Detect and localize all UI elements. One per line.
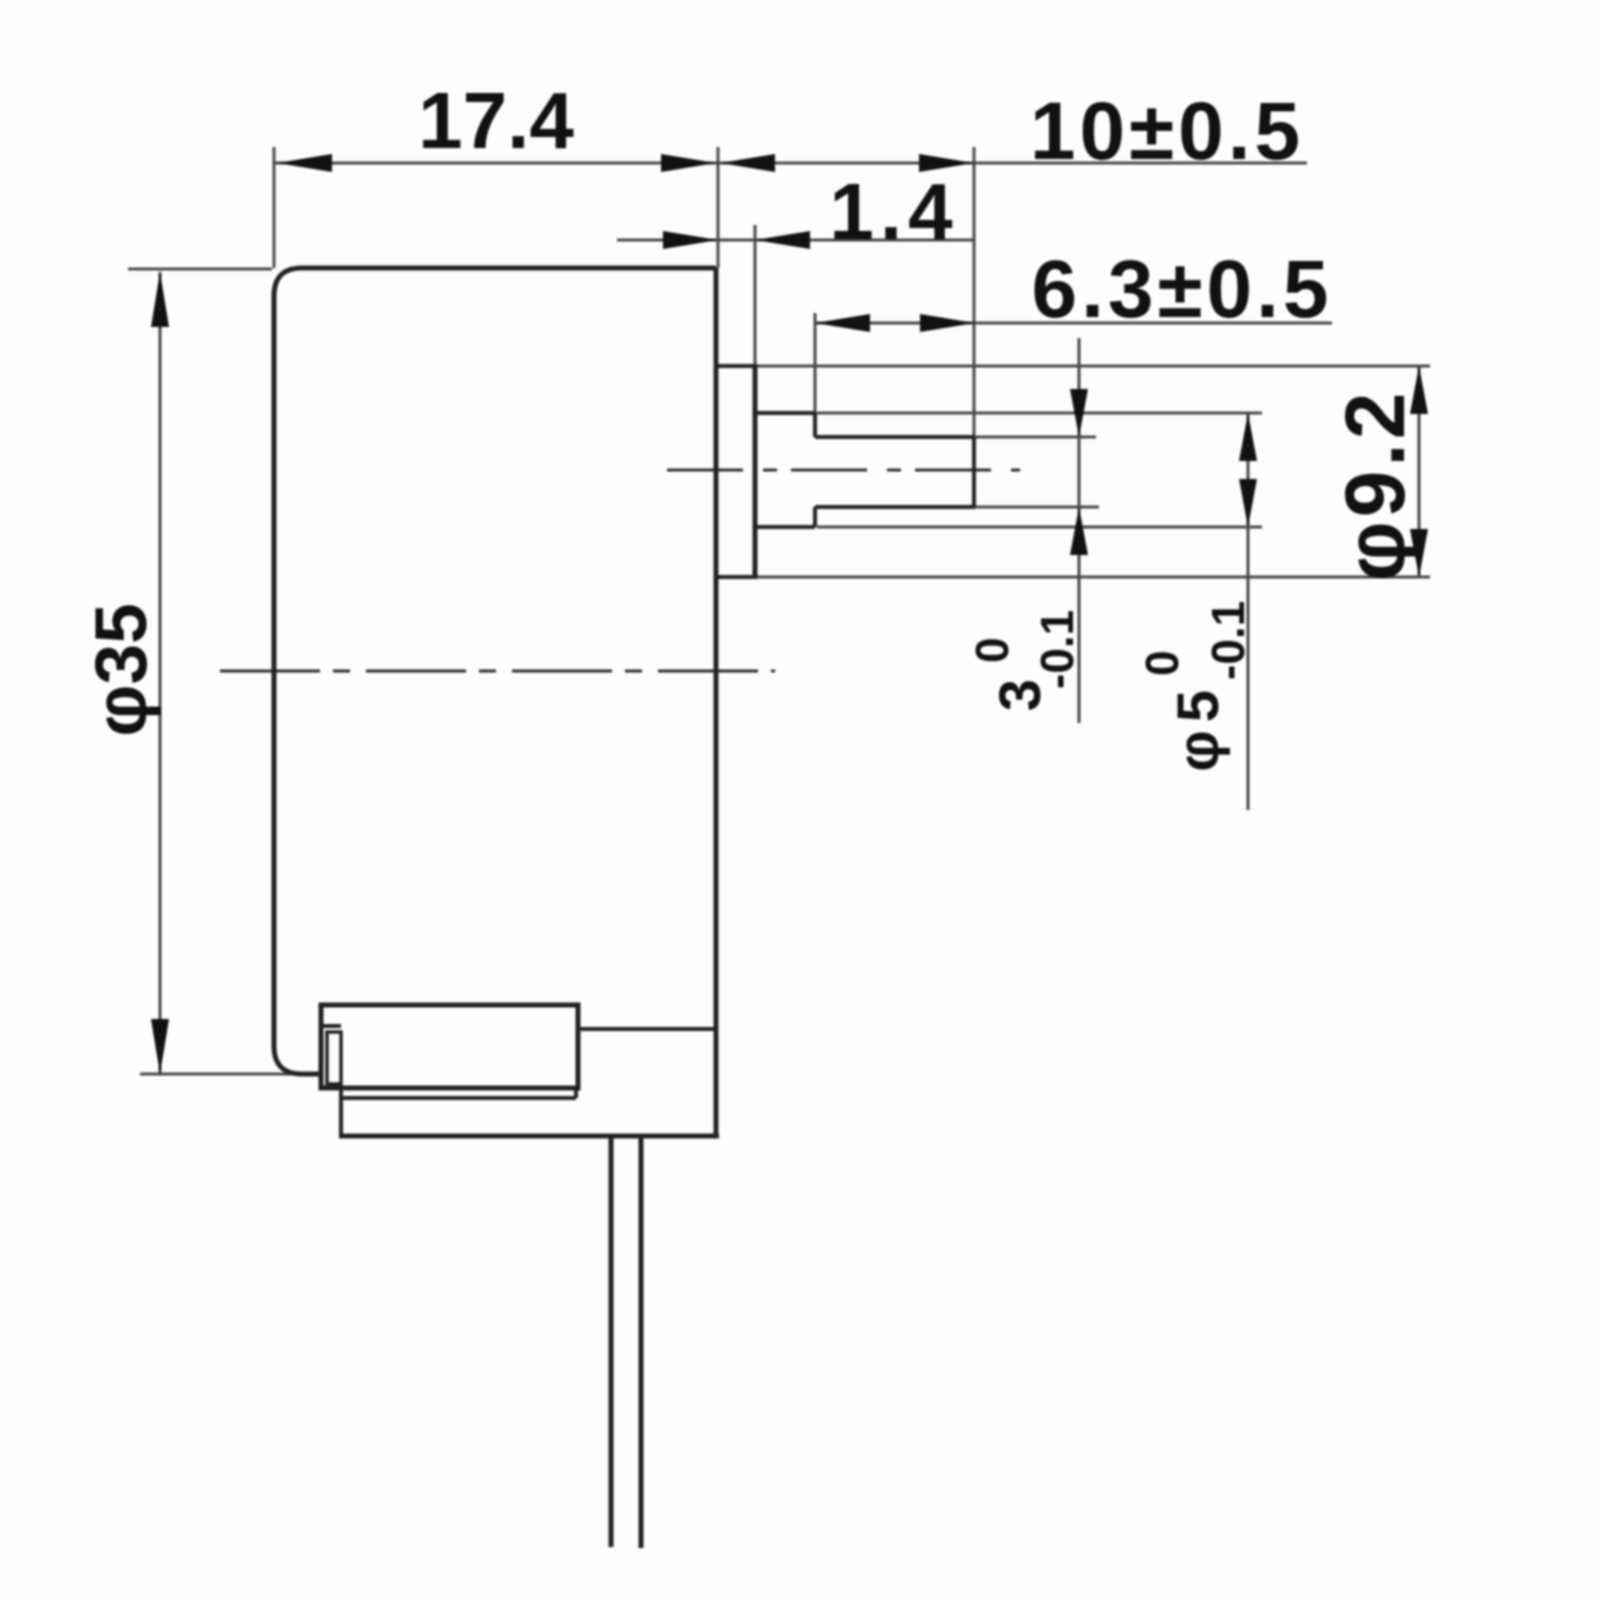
svg-text:φ5: φ5	[1166, 682, 1231, 772]
svg-text:-0.1: -0.1	[1031, 610, 1083, 689]
svg-text:10±0.5: 10±0.5	[1030, 86, 1304, 177]
svg-text:φ9.2: φ9.2	[1328, 389, 1422, 582]
svg-text:φ35: φ35	[81, 603, 162, 736]
svg-text:1.4: 1.4	[829, 167, 958, 256]
svg-text:6.3±0.5: 6.3±0.5	[1032, 244, 1333, 335]
svg-text:0: 0	[966, 637, 1018, 663]
svg-text:17.4: 17.4	[418, 76, 574, 165]
svg-text:0: 0	[1136, 650, 1188, 676]
svg-text:-0.1: -0.1	[1202, 601, 1254, 680]
